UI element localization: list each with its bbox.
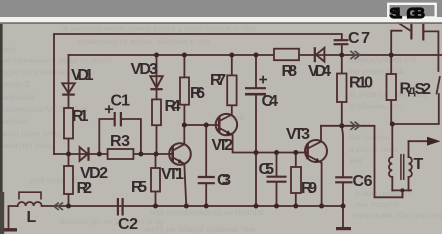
svg-text:C6: C6 bbox=[353, 173, 373, 190]
svg-text:над писпредыдущ не полnjat: над писпредыдущ не полnjat bbox=[150, 207, 264, 217]
svg-text:.GB: .GB bbox=[407, 5, 426, 22]
svg-text:C7: C7 bbox=[348, 30, 370, 47]
svg-text:зна подроб: зна подроб bbox=[355, 199, 399, 209]
svg-text:R7: R7 bbox=[210, 72, 226, 89]
svg-text:L: L bbox=[27, 209, 37, 226]
svg-text:S1: S1 bbox=[390, 5, 403, 22]
svg-text:C4: C4 bbox=[262, 93, 279, 110]
svg-text:C5: C5 bbox=[259, 161, 275, 178]
svg-text:ме托 не общуй вровень тем: ме托 не общуй вровень тем bbox=[145, 224, 255, 234]
svg-text:те иносказ мною повер колте у: те иносказ мною повер колте у пере глатс… bbox=[60, 23, 256, 33]
svg-text:C3: C3 bbox=[217, 172, 231, 189]
svg-text:VD4: VD4 bbox=[308, 63, 331, 80]
svg-text:R9: R9 bbox=[301, 180, 317, 197]
svg-text:R1: R1 bbox=[72, 108, 89, 125]
svg-text:VT2: VT2 bbox=[212, 137, 234, 154]
svg-text:VT3: VT3 bbox=[286, 126, 310, 143]
svg-text:нальными. Контроллер получ: нальными. Контроллер получ bbox=[352, 210, 442, 220]
svg-text:е обычны слу: е обычны слу bbox=[350, 101, 405, 111]
svg-text:C1: C1 bbox=[111, 93, 131, 110]
svg-text:поверхности косве. Хорошо в го: поверхности косве. Хорошо в год bbox=[78, 36, 210, 46]
svg-text:ват: ват bbox=[350, 155, 363, 165]
svg-text:VD3: VD3 bbox=[131, 61, 159, 78]
svg-text:R3: R3 bbox=[110, 133, 130, 150]
svg-text:R4: R4 bbox=[165, 98, 181, 115]
svg-text:VD1: VD1 bbox=[71, 67, 94, 84]
svg-text:VT1: VT1 bbox=[161, 166, 184, 183]
svg-text:R2: R2 bbox=[77, 180, 93, 197]
svg-text:оемо-2: оемо-2 bbox=[2, 79, 30, 89]
svg-text:R10: R10 bbox=[349, 75, 373, 92]
svg-text:S2: S2 bbox=[415, 81, 432, 98]
svg-text:виться: виться bbox=[2, 116, 29, 126]
svg-text:осно из колеблющ: осно из колеблющ bbox=[2, 67, 75, 77]
svg-text:R6: R6 bbox=[190, 85, 205, 102]
svg-text:R8: R8 bbox=[282, 63, 298, 80]
svg-text:верхней: верхней bbox=[2, 92, 34, 102]
svg-text:оне: оне bbox=[2, 44, 16, 54]
svg-text:C2: C2 bbox=[118, 216, 138, 233]
svg-text:T: T bbox=[414, 156, 424, 173]
svg-text:жущ прин след: жущ прин след bbox=[2, 128, 61, 138]
svg-text:м котор тако: м котор тако bbox=[348, 144, 398, 154]
svg-text:R5: R5 bbox=[131, 179, 147, 196]
svg-text:ами лет вход: ами лет вход bbox=[2, 140, 54, 150]
svg-text:ски помеш: ски помеш bbox=[348, 132, 390, 142]
svg-text:не принимать виде холмест: не принимать виде холмест bbox=[2, 55, 112, 65]
